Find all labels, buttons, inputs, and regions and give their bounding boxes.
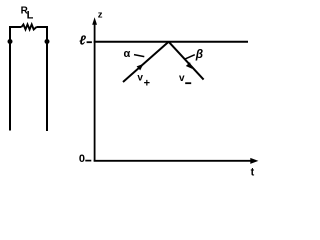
t axis arrowhead	[250, 158, 258, 164]
svg-text:v: v	[179, 73, 185, 84]
l tick dash	[87, 41, 92, 43]
z axis arrowhead	[92, 17, 97, 25]
svg-text:β: β	[195, 47, 203, 61]
wire right vertical	[46, 42, 48, 132]
svg-text:v: v	[137, 73, 143, 84]
svg-text:z: z	[98, 10, 103, 21]
svg-text:L: L	[27, 10, 34, 22]
junction dot left	[8, 39, 13, 44]
svg-text:α: α	[124, 48, 131, 60]
resistor RL	[22, 24, 37, 29]
z axis	[94, 22, 96, 162]
origin tick dash	[85, 160, 91, 162]
wave v+ line	[123, 42, 169, 82]
wire left vertical	[9, 42, 11, 131]
wire top-right	[37, 27, 48, 40]
beta leader line	[184, 55, 195, 60]
svg-text:0: 0	[79, 153, 85, 165]
wave v- arrowhead	[186, 62, 193, 69]
wave v+ arrowhead	[137, 64, 144, 71]
svg-text:ℓ: ℓ	[79, 32, 86, 47]
wave v- line	[169, 42, 204, 80]
svg-text:+: +	[144, 78, 150, 90]
svg-text:t: t	[251, 166, 255, 178]
wire top-left	[10, 27, 22, 40]
junction dot right	[45, 39, 50, 44]
t axis	[94, 160, 251, 162]
line z = l	[94, 41, 248, 43]
alpha leader line	[134, 55, 144, 57]
